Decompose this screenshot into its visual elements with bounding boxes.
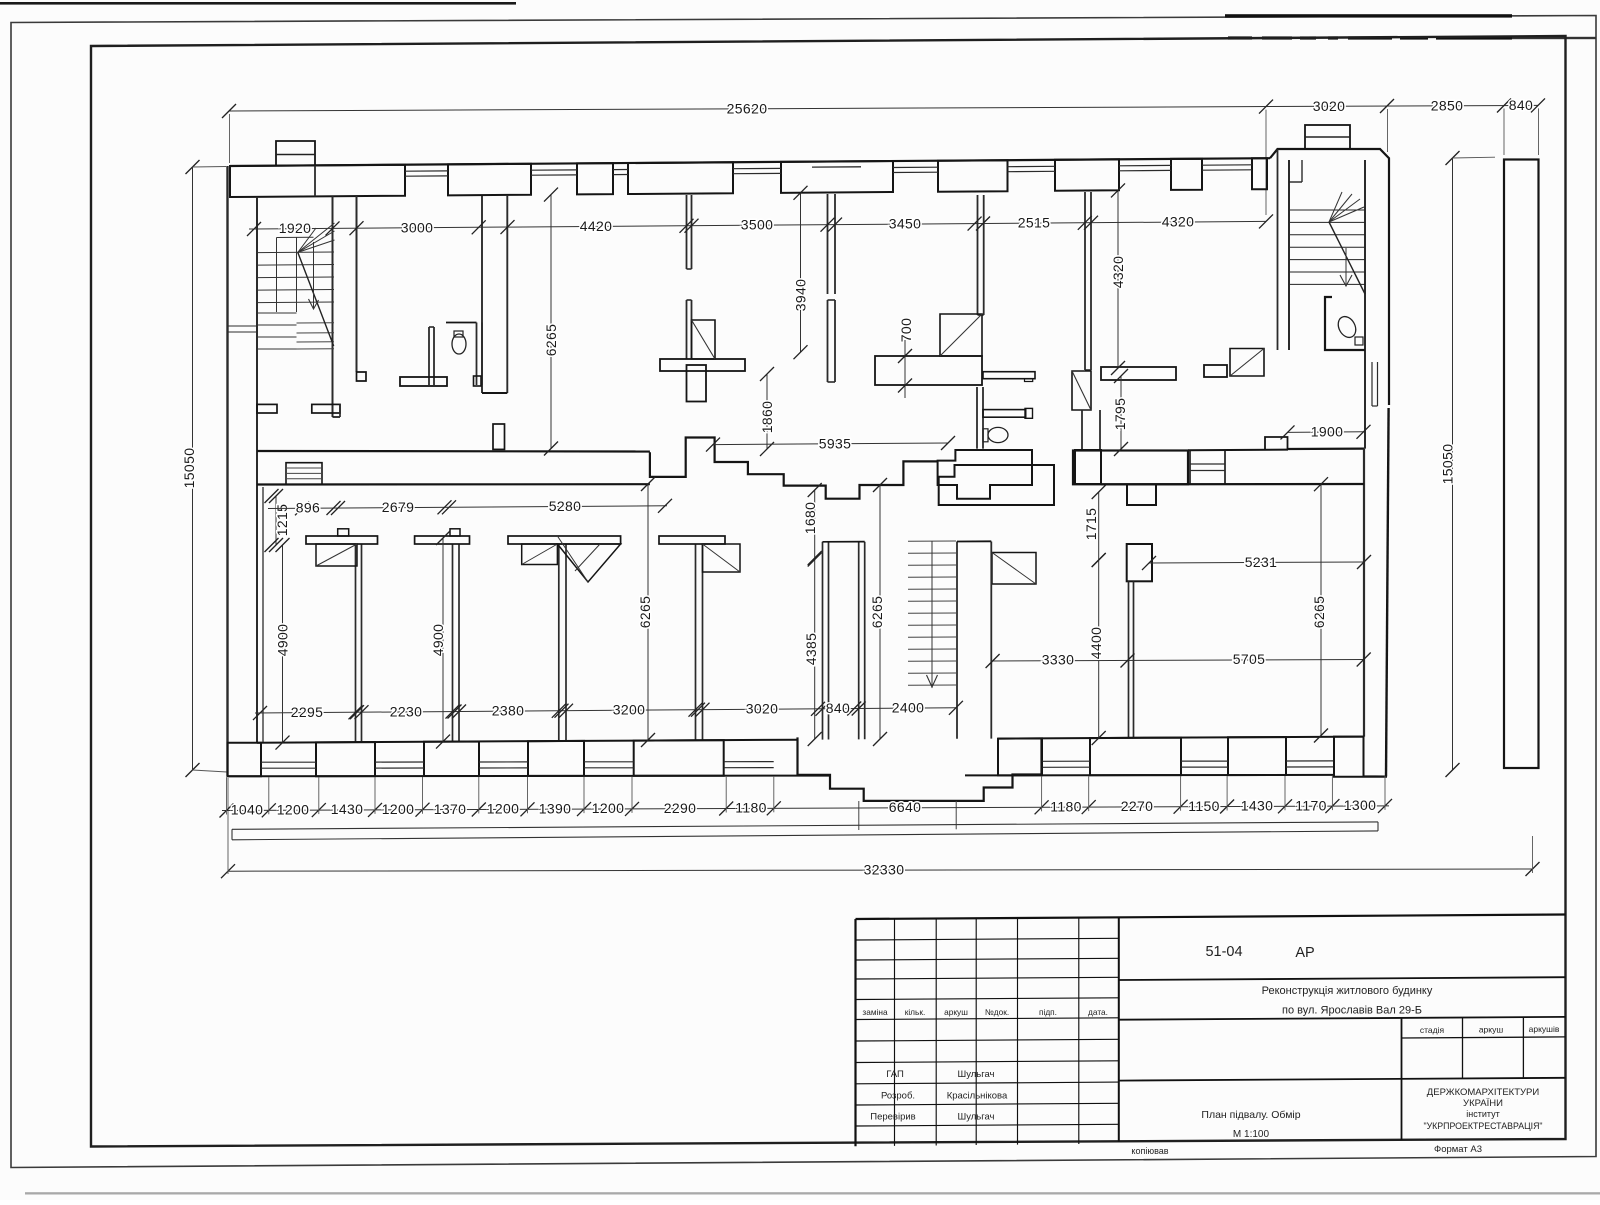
svg-text:1795: 1795 (1112, 398, 1128, 431)
svg-text:5705: 5705 (1233, 651, 1266, 667)
svg-text:5280: 5280 (549, 498, 582, 514)
svg-text:дата.: дата. (1088, 1007, 1108, 1017)
svg-text:32330: 32330 (864, 862, 905, 878)
svg-text:М 1:100: М 1:100 (1233, 1129, 1270, 1140)
svg-text:2515: 2515 (1018, 215, 1051, 231)
svg-text:5231: 5231 (1245, 554, 1278, 570)
svg-text:6640: 6640 (889, 799, 922, 815)
svg-text:840: 840 (1509, 97, 1533, 113)
svg-text:2290: 2290 (664, 800, 697, 816)
svg-text:кільк.: кільк. (905, 1007, 926, 1017)
svg-text:3020: 3020 (746, 701, 779, 717)
svg-text:План підвалу. Обмір: План підвалу. Обмір (1201, 1109, 1300, 1121)
svg-text:1680: 1680 (802, 502, 818, 535)
svg-text:1370: 1370 (434, 801, 467, 817)
svg-text:2295: 2295 (291, 704, 324, 720)
svg-text:ГАП: ГАП (886, 1069, 904, 1080)
svg-text:1860: 1860 (759, 401, 775, 434)
svg-text:АР: АР (1295, 945, 1314, 961)
svg-text:заміна: заміна (862, 1007, 888, 1017)
svg-text:підп.: підп. (1039, 1007, 1057, 1017)
svg-text:аркуш: аркуш (1479, 1025, 1504, 1035)
svg-text:2270: 2270 (1121, 798, 1154, 814)
svg-text:3000: 3000 (401, 219, 434, 235)
svg-text:6265: 6265 (543, 324, 559, 357)
svg-text:2679: 2679 (382, 499, 415, 515)
svg-text:2850: 2850 (1431, 97, 1464, 113)
svg-text:1200: 1200 (382, 801, 415, 817)
svg-text:25620: 25620 (727, 100, 768, 116)
svg-text:4900: 4900 (275, 624, 291, 657)
svg-text:Формат А3: Формат А3 (1434, 1144, 1482, 1155)
svg-text:ДЕРЖКОМАРХІТЕКТУРИ: ДЕРЖКОМАРХІТЕКТУРИ (1427, 1087, 1540, 1098)
svg-text:Шульгач: Шульгач (957, 1112, 994, 1123)
svg-text:1180: 1180 (735, 800, 767, 816)
svg-text:896: 896 (296, 500, 320, 516)
svg-text:аркуш: аркуш (944, 1007, 968, 1017)
svg-text:1150: 1150 (1188, 798, 1220, 814)
svg-text:стадія: стадія (1420, 1025, 1445, 1035)
svg-text:700: 700 (898, 318, 914, 342)
svg-text:1430: 1430 (331, 801, 364, 817)
svg-text:5935: 5935 (819, 435, 852, 451)
svg-text:Шульгач: Шульгач (957, 1069, 994, 1080)
svg-text:4420: 4420 (580, 218, 613, 234)
svg-text:6265: 6265 (1311, 596, 1327, 629)
svg-text:УКРАЇНИ: УКРАЇНИ (1463, 1098, 1503, 1109)
svg-text:6265: 6265 (637, 596, 653, 629)
svg-text:6265: 6265 (869, 596, 885, 629)
svg-text:3450: 3450 (889, 216, 922, 232)
svg-text:2230: 2230 (390, 703, 423, 719)
svg-text:по вул. Ярославів Вал 29-Б: по вул. Ярославів Вал 29-Б (1282, 1005, 1422, 1017)
svg-text:1200: 1200 (277, 801, 310, 817)
svg-text:3200: 3200 (613, 702, 646, 718)
svg-text:1180: 1180 (1050, 798, 1082, 814)
svg-text:1170: 1170 (1295, 797, 1327, 813)
svg-text:1200: 1200 (592, 800, 625, 816)
svg-text:Реконструкція житлового буди: Реконструкція житлового будинку (1262, 985, 1433, 997)
svg-text:15050: 15050 (181, 448, 197, 489)
svg-text:№док.: №док. (985, 1007, 1009, 1017)
svg-text:4900: 4900 (430, 624, 446, 657)
svg-text:3500: 3500 (741, 217, 774, 233)
svg-text:1200: 1200 (487, 801, 520, 817)
svg-text:3940: 3940 (793, 279, 809, 312)
svg-text:4385: 4385 (803, 633, 819, 666)
svg-text:1715: 1715 (1083, 508, 1099, 541)
svg-text:"УКРПРОЕКТРЕСТАВРАЦІЯ": "УКРПРОЕКТРЕСТАВРАЦІЯ" (1423, 1121, 1542, 1131)
svg-text:3020: 3020 (1313, 98, 1346, 114)
svg-text:Красільнікова: Красільнікова (947, 1091, 1008, 1102)
svg-text:1900: 1900 (1311, 424, 1344, 440)
svg-text:Розроб.: Розроб. (881, 1091, 915, 1102)
svg-text:51-04: 51-04 (1205, 944, 1242, 960)
svg-text:1390: 1390 (539, 800, 572, 816)
svg-text:2400: 2400 (892, 700, 925, 716)
svg-text:4320: 4320 (1162, 214, 1195, 230)
svg-text:1430: 1430 (1241, 798, 1274, 814)
svg-text:1040: 1040 (231, 802, 264, 818)
svg-text:інститут: інститут (1466, 1109, 1499, 1119)
svg-text:копіював: копіював (1131, 1146, 1168, 1156)
svg-text:аркушів: аркушів (1529, 1024, 1560, 1034)
svg-text:4320: 4320 (1110, 256, 1126, 289)
svg-text:840: 840 (826, 700, 850, 716)
svg-text:2380: 2380 (492, 703, 525, 719)
svg-text:3330: 3330 (1042, 652, 1075, 668)
svg-text:15050: 15050 (1440, 444, 1456, 485)
svg-text:1300: 1300 (1344, 797, 1377, 813)
svg-text:Перевірив: Перевірив (870, 1112, 915, 1123)
svg-text:4400: 4400 (1088, 627, 1104, 660)
svg-text:1920: 1920 (279, 220, 312, 236)
